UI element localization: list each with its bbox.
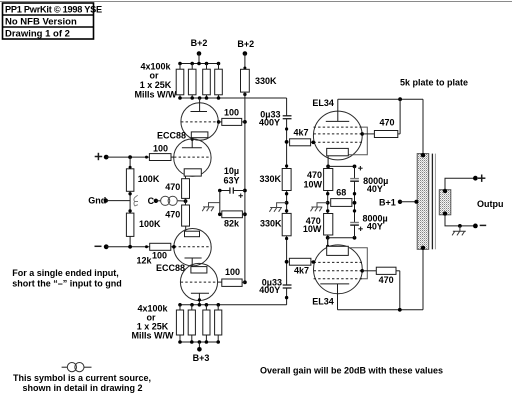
wire - input to grid resistor [106, 246, 150, 248]
svg-text:470: 470 [379, 118, 394, 128]
g3 to cathode strap (upper) [348, 127, 367, 155]
svg-text:ECC88: ECC88 [156, 263, 185, 273]
ground (output) [452, 226, 466, 236]
terminal + input [95, 153, 103, 160]
ground (cathode) [311, 203, 328, 212]
resistor 4k7 (lower grid stopper) [289, 258, 311, 265]
wire cap to bank2 bus [286, 288, 288, 305]
bank1 bottom bus wire to mid column [180, 97, 287, 99]
resistor 100 (V2b grid) [218, 281, 222, 283]
current source symbol legend [62, 366, 67, 368]
resistor bank1 R-a [179, 64, 181, 70]
svg-text:4k7: 4k7 [293, 128, 308, 138]
resistor 330K (lower grid leak) [282, 213, 291, 235]
resistor bank2 R-c [205, 305, 207, 310]
svg-text:Gnd: Gnd [88, 196, 106, 206]
capacitor 0u33 400V (upper coupling) [283, 116, 292, 119]
svg-text:82k: 82k [224, 218, 240, 228]
wire to upper grid node [286, 119, 288, 169]
bank2 top bus wire [180, 304, 287, 306]
svg-text:68: 68 [336, 188, 346, 198]
svg-text:5k plate to plate: 5k plate to plate [400, 78, 468, 88]
triode V2a (lower ECC88 top) [174, 229, 211, 266]
svg-text:100: 100 [152, 251, 167, 261]
cap column mid wire [354, 181, 356, 222]
svg-text:1 x 25K: 1 x 25K [140, 80, 172, 90]
svg-text:100: 100 [225, 267, 240, 277]
svg-text:470: 470 [379, 275, 394, 285]
svg-text:short the “–” input to gnd: short the “–” input to gnd [12, 278, 122, 288]
svg-text:This symbol is a current sourc: This symbol is a current source, [13, 373, 151, 383]
plate wire upper to transformer [338, 98, 423, 100]
resistor 470 10W (upper cathode) [327, 166, 329, 168]
svg-text:400Y: 400Y [259, 285, 280, 295]
svg-text:40Y: 40Y [367, 184, 383, 194]
svg-text:12k: 12k [137, 255, 153, 265]
transformer primary winding [417, 154, 429, 250]
resistor bank1 R-c [206, 64, 208, 70]
svg-text:PP1 PwrKit © 1998 YSE: PP1 PwrKit © 1998 YSE [5, 4, 102, 14]
bank2 bottom bus wire [180, 341, 219, 343]
svg-text:Mills W/W: Mills W/W [132, 330, 174, 340]
svg-text:Mills W/W: Mills W/W [135, 90, 177, 100]
svg-text:shown in detail in drawing 2: shown in detail in drawing 2 [23, 383, 143, 393]
triode V2b (lower ECC88 bottom) [180, 263, 217, 300]
resistor 470 (V2a cathode) [182, 205, 190, 226]
ground (grid leaks) [269, 203, 286, 212]
svg-text:Drawing 1 of 2: Drawing 1 of 2 [5, 28, 70, 39]
resistor 100 (V1b grid) [149, 154, 171, 161]
resistor 470 (V1b cathode) [182, 179, 190, 199]
transformer core [431, 154, 433, 250]
resistor 330K (upper grid leak) [282, 169, 291, 191]
terminal + output [478, 175, 485, 182]
svg-text:100K: 100K [138, 174, 160, 184]
cathode mid wire [327, 191, 329, 214]
resistor bank1 R-b [191, 64, 193, 70]
capacitor 0u33 400V (lower coupling) [283, 285, 292, 288]
svg-text:B+2: B+2 [237, 39, 254, 49]
bank1 value label [135, 61, 177, 99]
wire + input to grid resistor [106, 156, 149, 158]
resistor bank2 R-a [179, 305, 181, 310]
svg-text:EL34: EL34 [312, 98, 334, 108]
top scan border line [0, 1, 512, 3]
svg-text:ECC88: ECC88 [157, 131, 186, 141]
node cathode upper [326, 165, 330, 169]
terminal - output [480, 224, 487, 226]
svg-text:330K: 330K [259, 174, 281, 184]
resistor 100K (upper divider) [129, 157, 131, 169]
resistor bank1 R-d [218, 64, 220, 70]
svg-text:63Y: 63Y [223, 175, 239, 185]
resistor 330K (bias feed) [241, 69, 250, 92]
svg-text:Overall gain will be 20dB with: Overall gain will be 20dB with these val… [260, 365, 443, 375]
resistor bank2 R-d [217, 305, 219, 310]
svg-text:470: 470 [165, 210, 180, 220]
wire gnd to divider tap [106, 200, 130, 202]
resistor 470 (lower screen) [360, 269, 364, 273]
triode V1a (upper ECC88 top) [181, 103, 218, 140]
svg-text:EL34: EL34 [312, 296, 334, 306]
wire secondary to + output [445, 178, 475, 190]
svg-text:10W: 10W [303, 224, 322, 234]
resistor 4k7 (upper grid stopper) [290, 139, 311, 146]
wire cap/82k left leg [219, 191, 221, 215]
capacitor 8000u 40V (lower) [350, 223, 359, 226]
svg-text:470: 470 [165, 182, 180, 192]
svg-text:470: 470 [307, 170, 322, 180]
resistor 100K (lower divider) [126, 213, 133, 236]
svg-text:or: or [150, 70, 159, 80]
svg-text:B+1: B+1 [379, 197, 396, 207]
ground (bias network) [202, 203, 220, 212]
resistor bank2 R-b [191, 305, 193, 310]
svg-text:40Y: 40Y [367, 222, 383, 232]
jumper mark [134, 195, 138, 206]
node cathode lower [328, 237, 355, 239]
bank2 value label [132, 303, 174, 340]
transformer secondary winding [439, 190, 451, 215]
grid leak center wire [286, 191, 288, 214]
svg-text:330K: 330K [260, 218, 282, 228]
resistor 100 (V1a grid stopper) [219, 121, 222, 123]
svg-text:B+3: B+3 [193, 353, 210, 363]
svg-text:330K: 330K [255, 76, 277, 86]
pentode EL34 upper [313, 111, 362, 160]
wire to lower grid node [286, 236, 288, 285]
triode V1b (upper ECC88 bottom) [174, 139, 211, 176]
resistor 470 10W (lower cathode) [324, 214, 333, 236]
plate wire lower to transformer [338, 309, 424, 311]
resistor 470 (upper screen) [360, 132, 364, 136]
svg-text:Outpu: Outpu [477, 199, 504, 209]
svg-text:100K: 100K [139, 219, 161, 229]
capacitor 8000u 40V (upper) [354, 166, 356, 178]
svg-text:400Y: 400Y [259, 118, 280, 128]
wire between 470s [185, 198, 187, 205]
pentode EL34 lower [314, 245, 363, 294]
resistor 68 [331, 199, 352, 207]
mid column coupling wire upper [286, 98, 288, 116]
svg-text:10W: 10W [303, 180, 322, 190]
divider tap wire [129, 191, 131, 213]
title block frame [3, 3, 94, 39]
svg-text:For a single ended input,: For a single ended input, [12, 268, 119, 278]
terminal - input [95, 245, 102, 247]
resistor 82k [218, 213, 222, 217]
node B+3 [198, 342, 200, 348]
svg-text:No NFB Version: No NFB Version [5, 16, 77, 27]
svg-text:B+2: B+2 [191, 38, 208, 48]
bias line wire down [243, 93, 246, 96]
svg-text:100: 100 [153, 144, 168, 154]
wire secondary to - output [445, 215, 475, 226]
g3 to cathode strap (lower) [348, 248, 367, 279]
svg-text:C: C [148, 196, 155, 206]
svg-text:4k7: 4k7 [294, 265, 309, 275]
svg-text:100: 100 [224, 107, 239, 117]
resistor 100 (V2a grid) [150, 243, 171, 250]
bank1 top bus wire [180, 63, 219, 65]
